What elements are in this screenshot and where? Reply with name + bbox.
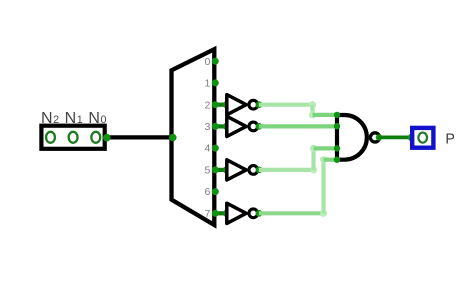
- node NAND input 2: [334, 123, 340, 129]
- wire into NAND input 1: [313, 113, 338, 117]
- input pin N bit value N0 = 0: [91, 132, 100, 143]
- node inverter U2 input: [223, 101, 230, 108]
- junction bend: [309, 111, 316, 118]
- junction bend: [309, 101, 316, 108]
- wire stub decoder output 7 to inverter U5 input: [214, 211, 228, 215]
- NAND gate U6 body: [337, 115, 367, 160]
- inverter U5 triangle: [227, 203, 246, 223]
- svg-text:7: 7: [204, 208, 210, 220]
- node inverter U4 input: [223, 166, 230, 173]
- node decoder output 2: [212, 101, 219, 108]
- input pin N bit value N1 = 0: [69, 132, 78, 143]
- inverter U2 triangle: [227, 95, 246, 115]
- junction bend: [310, 166, 317, 173]
- svg-text:3: 3: [204, 121, 210, 133]
- wire stub decoder output 2 to inverter U2 input: [214, 103, 228, 107]
- node decoder output 5: [212, 166, 219, 173]
- input pin N bit value N2 = 0: [46, 132, 55, 143]
- wire bus from input pin to decoder: [105, 135, 173, 139]
- output pin P body: [412, 128, 433, 148]
- svg-text:0: 0: [204, 56, 210, 68]
- node at output pin P input port: [408, 134, 416, 142]
- svg-text:2: 2: [204, 99, 210, 111]
- wire stub decoder output 3 to inverter U3 input: [214, 124, 228, 128]
- output pin P value = 0: [418, 133, 427, 143]
- node inverter U2 output: [256, 101, 263, 108]
- node NAND input 3: [334, 145, 340, 151]
- svg-text:4: 4: [204, 143, 210, 155]
- wire inverter U2 vertical drop: [310, 105, 314, 115]
- NAND gate U6 bubble: [370, 133, 379, 142]
- node NAND output: [376, 134, 382, 140]
- wire inverter U5 vertical rise: [321, 160, 325, 214]
- node decoder output 1: [212, 79, 219, 86]
- node decoder output 7: [212, 210, 219, 217]
- junction bend: [310, 145, 317, 152]
- node decoder output 3: [212, 123, 219, 130]
- svg-text:6: 6: [204, 186, 210, 198]
- wire inverter U4 output horizontal: [259, 168, 314, 172]
- node inverter U5 output: [256, 210, 263, 217]
- wire inverter U5 output horizontal: [259, 211, 324, 215]
- node decoder output 4: [212, 145, 219, 152]
- node NAND input 4: [334, 157, 340, 163]
- wire NAND output to output pin P: [378, 135, 412, 139]
- wire inverter U3 output to NAND input 2: [259, 124, 337, 128]
- node inverter U3 input: [223, 123, 230, 130]
- svg-text:1: 1: [204, 78, 210, 90]
- node NAND input 1: [334, 112, 340, 118]
- node decoder output 0: [212, 58, 219, 65]
- wire into NAND input 4: [324, 158, 338, 162]
- node inverter U4 output: [256, 167, 263, 174]
- node decoder output 6: [212, 188, 219, 195]
- inverter U4 triangle: [227, 160, 246, 180]
- wire inverter U4 vertical rise: [311, 148, 315, 170]
- node inverter U3 output: [256, 123, 263, 130]
- wire into NAND input 3: [314, 146, 338, 150]
- decoder U1 (3-to-8) body: [172, 49, 215, 225]
- wire stub decoder output 5 to inverter U4 input: [214, 168, 228, 172]
- junction bend: [320, 156, 327, 163]
- inverter U2 bubble: [249, 100, 258, 109]
- svg-text:5: 5: [204, 165, 210, 177]
- inverter U3 bubble: [249, 122, 258, 131]
- inverter U3 triangle: [227, 116, 246, 136]
- inverter U4 bubble: [249, 166, 258, 175]
- node at decoder select input: [169, 134, 177, 142]
- node at input pin output port: [103, 134, 111, 142]
- wire inverter U2 output horizontal: [259, 103, 313, 107]
- svg-text:P: P: [445, 131, 455, 147]
- junction bend: [320, 210, 327, 217]
- inverter U5 bubble: [249, 209, 258, 218]
- node inverter U5 input: [223, 210, 230, 217]
- input pin N (3-bit) body: [41, 126, 104, 149]
